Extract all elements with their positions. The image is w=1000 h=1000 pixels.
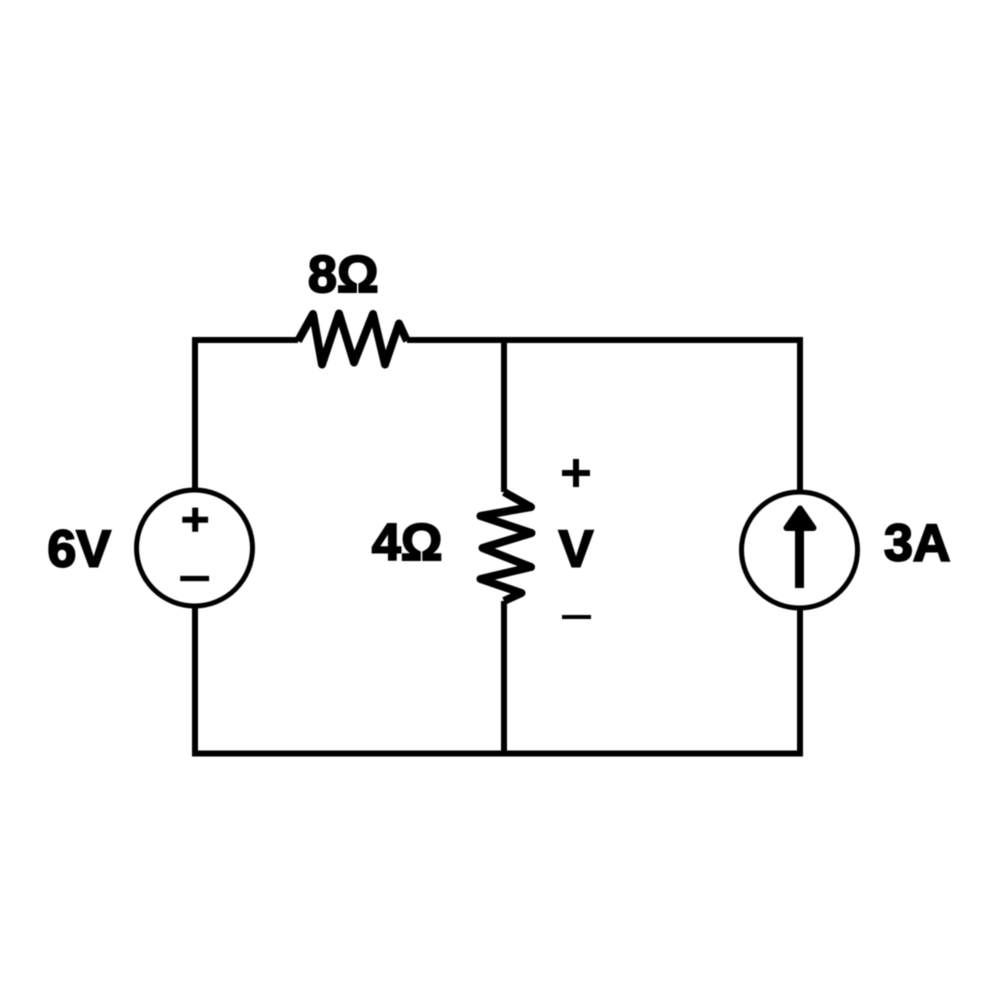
svg-text:3A: 3A — [884, 515, 950, 573]
svg-text:4Ω: 4Ω — [372, 514, 443, 572]
svg-text:6V: 6V — [47, 521, 111, 579]
svg-text:V: V — [559, 521, 594, 579]
svg-text:8Ω: 8Ω — [308, 246, 379, 304]
